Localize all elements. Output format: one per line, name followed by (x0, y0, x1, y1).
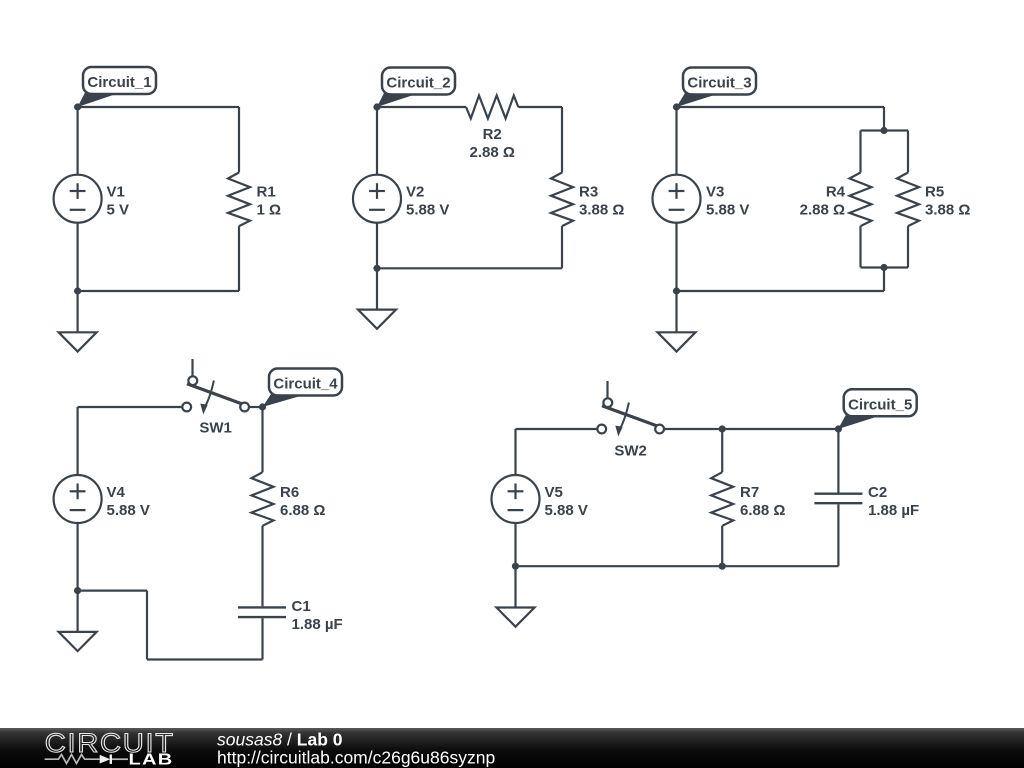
wire top rail left of SW2 (516, 428, 598, 430)
node parallel top junction dot (880, 127, 887, 134)
voltage source V1 (54, 175, 102, 223)
label R4 value 2.88 ohm (800, 184, 846, 219)
svg-text:R3: R3 (579, 184, 598, 201)
node Circuit_3 junction dot (673, 103, 680, 110)
wire bottom rail circuit 1 (78, 290, 239, 292)
voltage source V2 (353, 175, 401, 223)
node Circuit_3 label callout (677, 68, 757, 108)
ground circuit 2 (358, 268, 396, 329)
wire V5 bottom (514, 523, 516, 566)
capacitor C1 (238, 607, 286, 617)
wire to ground node circuit 4 (78, 589, 147, 591)
label V5 value 5.88 V (545, 484, 588, 519)
wire C2 bottom lead (837, 504, 839, 566)
node parallel bottom junction dot (880, 264, 887, 271)
wire left drop to V2 (376, 107, 378, 175)
resistor R2 (466, 96, 518, 119)
voltage source V4 (54, 475, 102, 523)
label SW2 (614, 442, 647, 459)
wire right drop to R1 (238, 107, 240, 173)
label C2 value 1.88 uF (868, 484, 919, 519)
svg-text:V1: V1 (107, 184, 125, 201)
wire left drop to V4 (76, 407, 78, 475)
label R7 value 6.88 ohm (740, 484, 785, 519)
label R1 value 1 ohm (257, 184, 282, 219)
wire SW2 to R7 node (664, 428, 722, 430)
resistor R7 (711, 472, 733, 526)
wire top rail circuit 3 (677, 106, 885, 108)
label SW1 (199, 420, 232, 437)
CircuitLab logo wordmark CIRCUIT (45, 728, 175, 758)
ground circuit 5 (497, 566, 535, 627)
node R7 top junction dot (719, 425, 726, 432)
label V4 value 5.88 V (107, 484, 150, 519)
footer bar (0, 728, 1024, 768)
wire bottom rail circuit 5 (516, 565, 839, 567)
node circuit 2 bottom junction (373, 265, 380, 272)
switch SW1 (182, 359, 249, 415)
wire drop to R7 (721, 429, 723, 472)
svg-text:R5: R5 (925, 184, 944, 201)
wire top rail left of SW1 (78, 406, 183, 408)
wire bottom rail circuit 3 (677, 290, 885, 292)
svg-text:6.88 Ω: 6.88 Ω (740, 502, 785, 519)
ground circuit 4 (59, 591, 97, 652)
wire V4 bottom (76, 523, 78, 591)
wire left drop to V5 (514, 429, 516, 475)
ground circuit 3 (658, 291, 696, 352)
CircuitLab logo schematic squiggle: wire, resistor, diode (45, 755, 128, 764)
svg-text:Circuit_3: Circuit_3 (687, 75, 751, 92)
label C1 value 1.88 uF (292, 598, 343, 633)
wire R5 top lead (907, 131, 909, 173)
svg-text:SW2: SW2 (614, 442, 647, 459)
wire drop from parallel pair (883, 268, 885, 292)
node circuit 1 bottom junction (74, 287, 81, 294)
svg-text:R7: R7 (740, 484, 759, 501)
wire left drop to V1 (76, 107, 78, 175)
svg-text:C1: C1 (292, 598, 311, 615)
node Circuit_1 junction dot (74, 103, 81, 110)
svg-text:C2: C2 (868, 484, 887, 501)
wire right drop to R3 (561, 107, 563, 173)
svg-text:sousas8 / Lab 0: sousas8 / Lab 0 (217, 730, 343, 750)
wire SW1 to node (249, 406, 263, 408)
wire parallel bottom bar (861, 266, 909, 268)
node Circuit_2 label callout (377, 68, 455, 108)
svg-text:Circuit_4: Circuit_4 (273, 376, 338, 393)
svg-text:Circuit_2: Circuit_2 (386, 75, 450, 92)
wire R6 to C1 (261, 526, 263, 607)
label R6 value 6.88 ohm (280, 484, 325, 519)
resistor R5 (897, 173, 919, 227)
wire parallel top bar (861, 129, 909, 131)
svg-text:2.88 Ω: 2.88 Ω (470, 144, 515, 161)
svg-text:3.88 Ω: 3.88 Ω (579, 202, 624, 219)
node Circuit_4 label callout (263, 369, 343, 408)
svg-text:1.88 µF: 1.88 µF (868, 502, 919, 519)
svg-text:5.88 V: 5.88 V (107, 502, 150, 519)
wire top rail left of R2 (377, 106, 466, 108)
voltage source V5 (492, 475, 540, 523)
wire drop to R6 (261, 407, 263, 472)
node circuit 5 bottom junction (512, 563, 519, 570)
resistor R3 (551, 173, 573, 227)
wire R5 bottom lead (907, 226, 909, 267)
ground circuit 1 (59, 291, 97, 352)
svg-text:LAB: LAB (129, 752, 174, 768)
wire top rail right of R2 (518, 106, 562, 108)
label R5 value 3.88 ohm (925, 184, 970, 219)
svg-text:5.88 V: 5.88 V (706, 202, 749, 219)
node circuit 3 bottom junction (673, 287, 680, 294)
wire C1 bottom lead (261, 618, 263, 659)
wire top rail circuit 1 (78, 106, 239, 108)
label V2 value 5.88 V (406, 184, 449, 219)
label R2 value 2.88 ohm (470, 126, 515, 161)
node Circuit_4 junction dot (259, 403, 266, 410)
label V3 value 5.88 V (706, 184, 749, 219)
wire V3 bottom (675, 223, 677, 291)
svg-text:R4: R4 (826, 184, 846, 201)
node R7 bottom junction dot (719, 563, 726, 570)
label V1 value 5 V (107, 184, 130, 219)
wire V1 bottom (76, 223, 78, 291)
svg-text:R1: R1 (257, 184, 276, 201)
svg-text:V3: V3 (706, 184, 724, 201)
svg-text:5.88 V: 5.88 V (545, 502, 588, 519)
svg-text:SW1: SW1 (199, 420, 232, 437)
wire drop to C2 (837, 429, 839, 493)
CircuitLab logo wordmark LAB (129, 752, 174, 768)
svg-text:6.88 Ω: 6.88 Ω (280, 502, 325, 519)
svg-text:5 V: 5 V (107, 202, 130, 219)
capacitor C2 (814, 494, 862, 504)
node Circuit_2 junction dot (373, 103, 380, 110)
resistor R1 (228, 173, 250, 227)
svg-text:Circuit_5: Circuit_5 (848, 396, 912, 413)
wire R3 bottom (561, 226, 563, 268)
svg-text:V2: V2 (406, 184, 424, 201)
svg-text:V5: V5 (545, 484, 563, 501)
node Circuit_1 label callout (78, 67, 156, 107)
svg-text:V4: V4 (107, 484, 126, 501)
footer url (217, 748, 495, 768)
wire bottom rail circuit 2 (377, 267, 562, 269)
switch SW2 (597, 381, 664, 437)
svg-text:1 Ω: 1 Ω (257, 202, 282, 219)
label R3 value 3.88 ohm (579, 184, 624, 219)
node Circuit_5 junction dot (835, 425, 842, 432)
resistor R6 (252, 472, 274, 526)
wire R4 top lead (859, 131, 861, 173)
resistor R4 (850, 173, 872, 227)
wire R7 bottom lead (721, 526, 723, 566)
svg-text:R6: R6 (280, 484, 299, 501)
wire left drop to V3 (675, 107, 677, 175)
wire bottom run circuit 4 (147, 658, 263, 660)
footer title sousas8 / Lab 0 (217, 730, 343, 750)
svg-text:Circuit_1: Circuit_1 (87, 74, 151, 91)
wire R7 node to C2 node (722, 428, 838, 430)
wire riser circuit 4 (146, 591, 148, 660)
svg-text:5.88 V: 5.88 V (406, 202, 449, 219)
wire drop to parallel pair (883, 107, 885, 131)
svg-text:2.88 Ω: 2.88 Ω (800, 202, 845, 219)
node circuit 4 bottom junction (74, 587, 81, 594)
wire V2 bottom (376, 223, 378, 269)
svg-text:R2: R2 (483, 126, 502, 143)
voltage source V3 (653, 175, 701, 223)
svg-text:1.88 µF: 1.88 µF (292, 616, 343, 633)
wire R4 bottom lead (859, 226, 861, 267)
wire R1 bottom (238, 226, 240, 291)
svg-text:http://circuitlab.com/c26g6u86: http://circuitlab.com/c26g6u86syznp (217, 748, 495, 768)
node Circuit_5 label callout (838, 389, 917, 429)
svg-text:3.88 Ω: 3.88 Ω (925, 202, 970, 219)
